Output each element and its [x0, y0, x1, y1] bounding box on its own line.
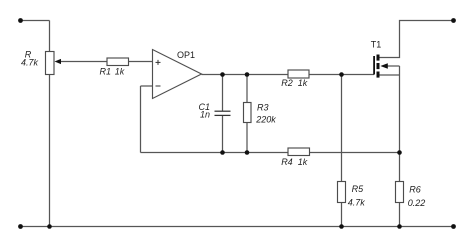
- svg-text:220k: 220k: [255, 115, 276, 125]
- node junction source feedback: [397, 150, 402, 155]
- node junction R3 bottom: [245, 150, 250, 155]
- resistor R2: [281, 70, 309, 88]
- wire R6 source vertical: [399, 66, 401, 227]
- wire wiper to R1 to op-amp + input: [59, 61, 153, 63]
- wire feedback bottom horizontal: [141, 152, 400, 154]
- wire op-amp output to gate: [202, 74, 375, 76]
- capacitor C1: [198, 102, 230, 120]
- svg-text:T1: T1: [371, 40, 382, 50]
- svg-text:R1: R1: [100, 66, 112, 76]
- svg-text:4.7k: 4.7k: [348, 198, 366, 208]
- svg-text:OP1: OP1: [177, 50, 195, 60]
- node junction C1 bottom: [220, 150, 225, 155]
- resistor R1: [100, 58, 129, 76]
- op-amp OP1: [153, 50, 202, 99]
- node junction R6 bottom: [397, 224, 402, 229]
- svg-text:R6: R6: [409, 185, 421, 195]
- wire body arrow horizontal: [386, 65, 400, 67]
- resistor R6: [396, 182, 426, 208]
- wire feedback vertical: [140, 86, 142, 153]
- node terminal bottom-right: [451, 224, 456, 229]
- resistor R5: [338, 182, 366, 208]
- node junction R3 top: [245, 72, 250, 77]
- resistor R3: [244, 102, 277, 124]
- svg-text:R5: R5: [352, 184, 364, 194]
- node junction R5 bottom: [339, 224, 344, 229]
- node junction pot bottom: [47, 224, 52, 229]
- potentiometer R 4.7k: [21, 50, 61, 75]
- wire R5 vertical: [341, 75, 343, 227]
- wire C1 vertical bottom: [222, 116, 224, 153]
- resistor R4: [281, 148, 309, 167]
- svg-text:1k: 1k: [298, 78, 308, 88]
- wire R3 vertical: [246, 75, 248, 153]
- wire drain to top-right terminal: [380, 21, 454, 58]
- node terminal top-right: [451, 18, 456, 23]
- node junction C1 top: [220, 72, 225, 77]
- wire bottom rail: [21, 226, 454, 228]
- svg-text:1k: 1k: [298, 157, 308, 167]
- wire top-left horizontal: [21, 20, 50, 22]
- svg-text:R3: R3: [257, 102, 269, 112]
- wire left vertical rail through potentiometer: [49, 21, 51, 227]
- node junction R5 top: [339, 72, 344, 77]
- svg-text:1n: 1n: [200, 110, 210, 120]
- wire op-amp - input stub: [141, 85, 153, 87]
- transistor T1 (n-MOSFET): [371, 40, 388, 78]
- svg-text:0.22: 0.22: [408, 198, 426, 208]
- node terminal top-left: [18, 18, 23, 23]
- wire C1 vertical top: [222, 75, 224, 112]
- svg-text:1k: 1k: [115, 66, 125, 76]
- wire source horizontal: [380, 74, 400, 76]
- node terminal bottom-left: [18, 224, 23, 229]
- svg-text:4.7k: 4.7k: [21, 58, 39, 68]
- svg-text:R2: R2: [281, 78, 293, 88]
- svg-text:R4: R4: [281, 157, 293, 167]
